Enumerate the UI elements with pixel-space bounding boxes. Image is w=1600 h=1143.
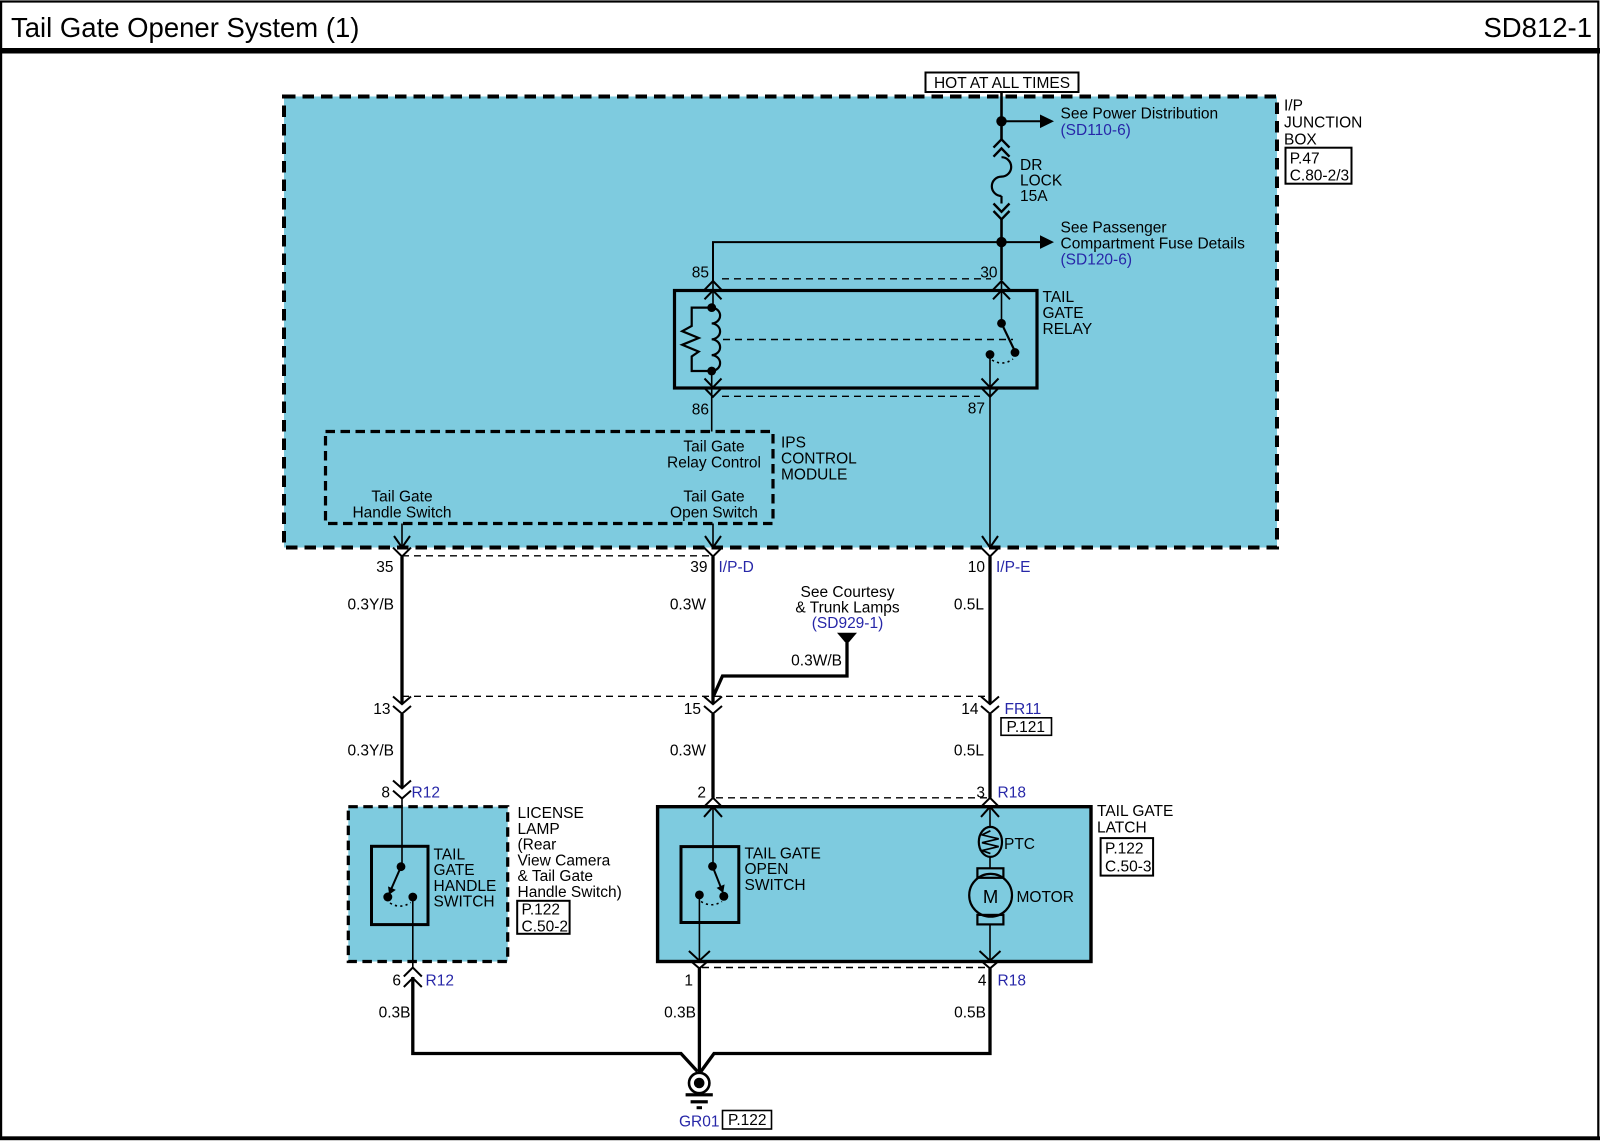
svg-text:2: 2 [697, 785, 706, 802]
svg-text:1: 1 [684, 973, 693, 990]
svg-text:CONTROL: CONTROL [781, 451, 857, 468]
node pin 87 [982, 379, 999, 388]
node contact right [408, 893, 417, 902]
svg-text:0.3B: 0.3B [379, 1005, 411, 1022]
svg-text:LOCK: LOCK [1020, 173, 1063, 190]
svg-text:8: 8 [381, 785, 390, 802]
power + fuse [713, 92, 1245, 281]
svg-text:0.5B: 0.5B [954, 1005, 986, 1022]
dotted travel arc [390, 903, 411, 907]
svg-text:See Power Distribution: See Power Distribution [1061, 106, 1219, 123]
svg-text:See Passenger: See Passenger [1061, 220, 1167, 237]
node coil top dot [707, 303, 716, 312]
svg-text:13: 13 [373, 701, 390, 718]
svg-text:GATE: GATE [434, 862, 475, 879]
license lamp box [348, 805, 621, 990]
svg-text:R12: R12 [412, 785, 440, 802]
svg-text:TAIL GATE: TAIL GATE [745, 846, 821, 863]
svg-text:RELAY: RELAY [1043, 321, 1093, 338]
wire pin8 into license box [401, 799, 403, 807]
wire dashed connector row 86-87 [722, 395, 980, 397]
svg-text:0.3B: 0.3B [664, 1005, 696, 1022]
bottom + ground [379, 961, 1026, 1131]
svg-text:Tail Gate: Tail Gate [683, 439, 744, 456]
svg-text:BOX: BOX [1284, 132, 1317, 149]
node switch common dot [997, 319, 1006, 328]
wire 0.3W segment 39-15 [711, 557, 714, 705]
svg-text:39: 39 [690, 559, 707, 576]
svg-text:TAIL: TAIL [1043, 289, 1075, 306]
svg-text:View Camera: View Camera [518, 852, 611, 869]
ground GR01 symbol [689, 1073, 709, 1093]
wire switch out to pin 87 [989, 355, 991, 548]
fuse F1 DR LOCK 15A [994, 139, 1010, 147]
svg-text:P.47: P.47 [1290, 151, 1320, 168]
wire 0.3B center [698, 968, 701, 1072]
svg-text:FR11: FR11 [1005, 701, 1042, 718]
svg-text:MODULE: MODULE [781, 467, 847, 484]
motor M1 [989, 857, 991, 869]
node pin 2 connector [704, 798, 722, 807]
svg-text:TAIL: TAIL [434, 847, 466, 864]
svg-text:SWITCH: SWITCH [434, 894, 495, 911]
svg-text:0.3Y/B: 0.3Y/B [347, 743, 394, 760]
svg-text:M: M [983, 886, 998, 907]
wire pin39 arrow [712, 524, 714, 547]
svg-text:MOTOR: MOTOR [1017, 889, 1074, 906]
node contact left [695, 891, 704, 900]
svg-text:GR01: GR01 [679, 1114, 720, 1131]
svg-text:85: 85 [692, 265, 709, 282]
svg-text:10: 10 [968, 559, 986, 576]
node pin 1 connector [690, 961, 708, 969]
svg-text:86: 86 [692, 402, 709, 419]
wire power vertical mid [1000, 219, 1003, 280]
arrow exit pin 1 [689, 951, 710, 961]
switch arm [713, 866, 723, 891]
wire motor to pin 4 [989, 924, 991, 960]
relay [675, 265, 1093, 548]
svg-text:(SD120-6): (SD120-6) [1061, 252, 1133, 269]
arrow into blue edge (pin10) [982, 536, 998, 548]
svg-text:(SD929-1): (SD929-1) [812, 615, 884, 632]
svg-text:14: 14 [961, 701, 979, 718]
node pin 39 connector I/P-D [704, 548, 722, 557]
svg-text:15A: 15A [1020, 188, 1048, 205]
node pin 8 connector R12 [393, 781, 411, 789]
wire 0.5L segment 14-3 [988, 714, 991, 798]
wire coil top lead [712, 281, 714, 308]
node pin 6 connector R12 [404, 968, 422, 977]
wire switch out to pin 6 [412, 897, 414, 968]
node pin 3 inner arrow [981, 807, 999, 817]
node I/P JUNCTION BOX label [1284, 98, 1362, 185]
wire 0.3Y/B segment 13-8 [400, 714, 403, 788]
svg-text:0.3W: 0.3W [670, 597, 707, 614]
svg-text:(Rear: (Rear [518, 837, 557, 854]
svg-text:3: 3 [976, 785, 985, 802]
node pin 14 connector FR11 [981, 697, 999, 705]
node contact top [397, 862, 406, 871]
svg-text:C.50-3: C.50-3 [1105, 858, 1152, 875]
dotted travel arc [701, 902, 722, 905]
node switch NO dot [1011, 348, 1020, 357]
svg-text:Tail Gate Opener System (1): Tail Gate Opener System (1) [11, 12, 359, 43]
svg-text:0.5L: 0.5L [954, 743, 985, 760]
svg-text:Handle Switch): Handle Switch) [518, 884, 622, 901]
svg-text:IPS: IPS [781, 435, 806, 452]
svg-text:15: 15 [684, 701, 701, 718]
wire 0.5L segment 10-14 [988, 557, 991, 705]
ips module [326, 432, 858, 548]
arrow exit pin 4 [980, 951, 1001, 961]
dotted travel arc [992, 359, 1013, 363]
node pin 35 connector [393, 548, 411, 557]
node pin 10 connector I/P-E [981, 548, 999, 557]
svg-text:P.122: P.122 [522, 902, 561, 919]
svg-text:& Trunk Lamps: & Trunk Lamps [795, 600, 899, 617]
IPS control module box [326, 432, 774, 524]
node junction dot A [996, 116, 1006, 126]
wire 0.5B right [701, 968, 990, 1071]
wire 0.3W segment 15-2 [711, 714, 714, 798]
wire pin2 into open switch [712, 807, 714, 867]
wire 0.3W/B branch from courtesy lamps [837, 633, 857, 645]
svg-text:SD812-1: SD812-1 [1483, 12, 1592, 43]
wire 0.3Y/B segment 35-13 [400, 557, 403, 705]
I/P junction box blue region [284, 97, 1277, 548]
svg-text:0.5L: 0.5L [954, 597, 985, 614]
wire dashed connector row 13-15-14 [402, 695, 990, 697]
node pin 2 inner arrow [704, 807, 722, 817]
node pin 3 connector R18 [981, 798, 999, 807]
svg-text:Open Switch: Open Switch [670, 505, 758, 522]
svg-text:& Tail Gate: & Tail Gate [518, 868, 594, 885]
middle wires [347, 548, 1051, 807]
svg-text:P.121: P.121 [1007, 719, 1046, 736]
tail gate latch blue box [658, 807, 1091, 962]
switch arm [389, 867, 401, 894]
relay K1 TAIL GATE RELAY box [675, 291, 1038, 389]
svg-text:C.50-2: C.50-2 [522, 918, 569, 935]
svg-text:Relay Control: Relay Control [667, 455, 761, 472]
switch S2 TAIL GATE OPEN SWITCH box [681, 847, 739, 923]
svg-text:R18: R18 [998, 785, 1026, 802]
node contact left [383, 893, 392, 902]
wire see power distribution arrow [1002, 120, 1041, 122]
svg-text:SWITCH: SWITCH [745, 877, 806, 894]
switch S1 TAIL GATE HANDLE SWITCH box [372, 846, 429, 924]
svg-text:P.122: P.122 [1105, 841, 1144, 858]
wire 0.3B left [413, 977, 698, 1072]
wire dashed connector row 2-3 [716, 797, 987, 799]
node pin 15 connector [704, 697, 722, 705]
svg-text:Handle Switch: Handle Switch [352, 505, 451, 522]
node pin 86 [705, 379, 722, 388]
wire branch to pin 85 [713, 242, 1002, 281]
svg-text:6: 6 [392, 973, 401, 990]
inductor L1 relay coil [712, 308, 720, 371]
svg-text:See Courtesy: See Courtesy [801, 584, 895, 601]
svg-text:C.80-2/3: C.80-2/3 [1290, 167, 1349, 184]
svg-text:0.3W/B: 0.3W/B [791, 653, 842, 670]
svg-text:JUNCTION: JUNCTION [1284, 115, 1362, 132]
latch box [658, 803, 1174, 962]
node HOT AT ALL TIMES [926, 73, 1079, 93]
wire dashed connector row I/P-D [402, 555, 713, 557]
wire coil bottom to pin 86 [711, 371, 713, 432]
svg-text:DR: DR [1020, 157, 1042, 174]
wire see passenger arrow [1002, 241, 1041, 243]
title underline [0, 48, 1600, 54]
svg-text:Tail Gate: Tail Gate [683, 489, 744, 506]
svg-text:0.3Y/B: 0.3Y/B [347, 597, 394, 614]
svg-text:LICENSE: LICENSE [518, 805, 584, 822]
node contact right [719, 892, 728, 901]
node pin 13 connector [393, 697, 411, 705]
wire dashed actuation link [723, 339, 1013, 341]
wire into switch [401, 805, 403, 867]
node switch out dot [986, 350, 995, 359]
svg-text:I/P: I/P [1284, 98, 1303, 115]
svg-text:30: 30 [980, 265, 998, 282]
wire switch out to pin 1 [698, 895, 700, 961]
wire pin30 to switch contact [1001, 281, 1003, 323]
svg-text:LAMP: LAMP [518, 821, 560, 838]
svg-text:HOT AT ALL TIMES: HOT AT ALL TIMES [934, 75, 1070, 92]
svg-text:4: 4 [978, 973, 987, 990]
node pin 4 connector R18 [981, 961, 999, 969]
svg-text:R18: R18 [998, 973, 1026, 990]
wire dashed connector row 1-4 [702, 967, 987, 969]
svg-text:TAIL GATE: TAIL GATE [1097, 803, 1173, 820]
svg-text:87: 87 [968, 401, 985, 418]
license lamp blue box [348, 807, 507, 962]
svg-text:GATE: GATE [1043, 305, 1084, 322]
svg-text:35: 35 [376, 559, 393, 576]
switch arm [1002, 323, 1015, 351]
svg-text:0.3W: 0.3W [670, 743, 707, 760]
node coil bottom dot [707, 367, 716, 376]
svg-text:P.122: P.122 [728, 1112, 767, 1129]
svg-text:I/P-E: I/P-E [996, 559, 1030, 576]
svg-text:(SD110-6): (SD110-6) [1061, 122, 1131, 139]
svg-text:R12: R12 [426, 973, 454, 990]
wire power vertical top [1000, 92, 1003, 140]
svg-text:OPEN: OPEN [745, 861, 789, 878]
node contact top [708, 862, 717, 871]
svg-text:PTC: PTC [1004, 836, 1035, 853]
wire pin35 arrow [401, 524, 403, 547]
wire dashed connector row 85-30 [722, 278, 991, 280]
svg-text:LATCH: LATCH [1097, 820, 1147, 837]
node junction dot B [996, 237, 1006, 247]
thermistor RT1 PTC [989, 807, 991, 827]
svg-text:Tail Gate: Tail Gate [371, 489, 432, 506]
svg-text:HANDLE: HANDLE [434, 878, 497, 895]
svg-text:Compartment Fuse Details: Compartment Fuse Details [1061, 236, 1246, 253]
resistor R1 relay coil suppressor [682, 308, 712, 371]
svg-text:I/P-D: I/P-D [719, 559, 754, 576]
